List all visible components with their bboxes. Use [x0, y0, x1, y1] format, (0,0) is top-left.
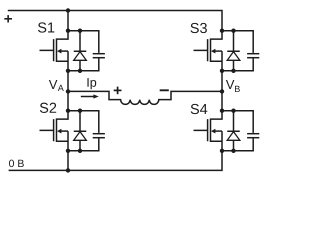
junction dot [220, 109, 224, 113]
diode of S3 [227, 31, 240, 71]
transistor S2 [40, 111, 81, 151]
wire: left leg middle through node VA [67, 71, 69, 111]
transistor S3 [194, 31, 234, 71]
junction dot top rail [66, 8, 70, 12]
junction dot bottom rail [66, 168, 70, 172]
junction dot [220, 29, 224, 33]
junction dot [220, 69, 224, 73]
capacitor of S2 [80, 111, 105, 151]
diode of S2 [74, 111, 87, 151]
label node VA [49, 80, 64, 91]
junction dot [231, 29, 235, 33]
junction dot [66, 109, 70, 113]
junction dot [66, 149, 70, 153]
current Ip arrow [81, 94, 99, 98]
junction dot [66, 29, 70, 33]
wire: left leg bottom [67, 151, 69, 171]
junction dot [78, 149, 82, 153]
wire: left leg top [67, 11, 69, 31]
capacitor of S4 [234, 111, 260, 151]
label node VB [226, 80, 240, 92]
label S1 [38, 22, 46, 32]
label + of supply [4, 15, 12, 22]
top supply rail + [8, 11, 222, 31]
junction dot [66, 69, 70, 73]
label S3 [190, 23, 198, 33]
node VA dot [66, 89, 70, 93]
diode of S1 [74, 31, 87, 71]
junction dot [231, 149, 235, 153]
junction dot [231, 69, 235, 73]
junction dot [78, 29, 82, 33]
label S4 [191, 104, 199, 114]
capacitor of S3 [234, 31, 260, 71]
junction dot [78, 69, 82, 73]
junction dot [220, 149, 224, 153]
node VB dot [220, 89, 224, 93]
diode of S4 [227, 111, 240, 151]
transistor S4 [194, 111, 234, 151]
junction dot [231, 109, 235, 113]
wire: right leg middle through node VB [221, 71, 223, 111]
bottom rail 0V [9, 151, 222, 171]
label 0 V rail [9, 160, 14, 167]
label - polarity of inductor [160, 89, 169, 91]
label + polarity of inductor [114, 87, 122, 95]
label current Ip [87, 78, 88, 87]
inductor L with connecting wire VA to VB [68, 91, 222, 104]
junction dot [78, 109, 82, 113]
transistor S1 [40, 31, 81, 71]
label S2 [40, 103, 48, 113]
capacitor of S1 [80, 31, 105, 71]
